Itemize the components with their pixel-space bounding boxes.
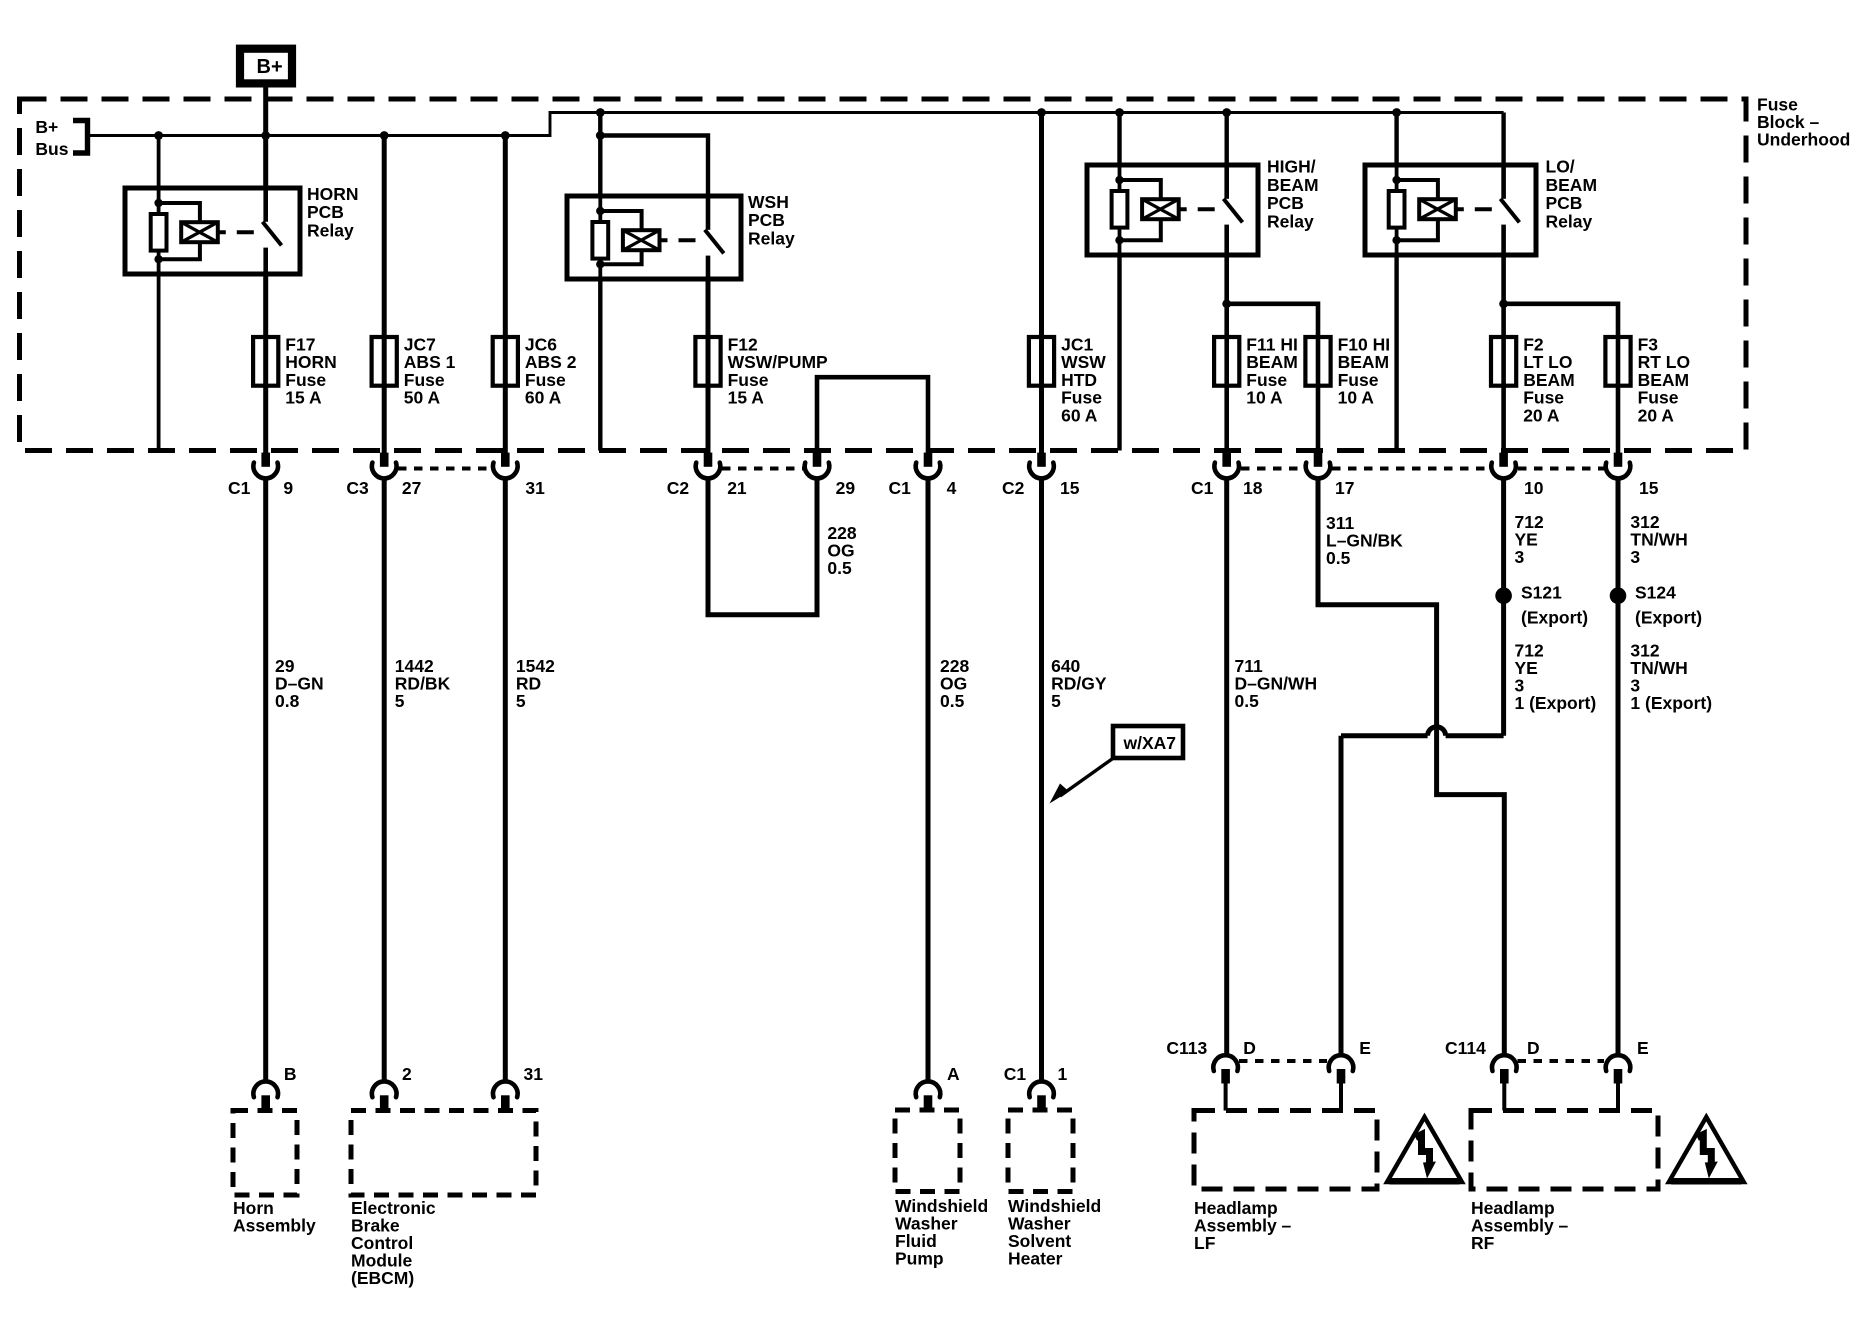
wire HIGH BEAM relay coil ground return (1117, 255, 1121, 451)
wire 312 TN/WH 3 pin 15 through S124 to headlamp RF E (1616, 477, 1621, 1057)
svg-text:Assembly: Assembly (233, 1216, 316, 1236)
node bus-B+ feed (261, 131, 270, 140)
svg-text:PCB: PCB (748, 210, 785, 230)
fuse JC1 WSW HTD 60A (1029, 337, 1054, 386)
node bus-WSH coil (596, 108, 605, 117)
connector C114 pin D (1492, 1055, 1517, 1110)
svg-text:Pump: Pump (895, 1249, 944, 1269)
wire bus to JC1 fuse to C2 pin 15 (1039, 113, 1044, 454)
node LO BEAM switch output tee (1499, 299, 1508, 308)
svg-text:C1: C1 (1191, 478, 1214, 498)
svg-text:29: 29 (836, 478, 856, 498)
connector C1 pin 18 (1214, 453, 1239, 479)
svg-text:4: 4 (947, 478, 957, 498)
wire HORN relay coil ground return (157, 274, 161, 451)
connector pin 29 (805, 453, 830, 479)
connector bridge C1 18-17 (1241, 467, 1304, 471)
wire 640 RD/GY 5 to washer solvent heater (1039, 477, 1044, 1083)
fuse F17 HORN 15A (253, 337, 278, 386)
svg-text:18: 18 (1243, 478, 1263, 498)
svg-text:S121: S121 (1521, 583, 1562, 603)
wire bus to JC7 fuse to C3 pin 27 (382, 136, 387, 454)
svg-text:B: B (284, 1064, 297, 1084)
wire 711 D-GN/WH 0.5 to headlamp LF D (1224, 477, 1229, 1057)
connector C2 pin 21 (696, 453, 721, 479)
svg-text:C1: C1 (1004, 1064, 1027, 1084)
svg-text:B+: B+ (35, 117, 58, 137)
node WSH switch-feed tee (596, 131, 605, 140)
svg-text:0.8: 0.8 (275, 691, 300, 711)
svg-text:20 A: 20 A (1638, 405, 1675, 425)
svg-text:LO/: LO/ (1546, 157, 1575, 177)
svg-text:WSH: WSH (748, 192, 789, 212)
svg-text:C3: C3 (346, 478, 369, 498)
svg-text:BEAM: BEAM (1267, 175, 1319, 195)
connector washer pump pin A (916, 1081, 941, 1110)
svg-text:C2: C2 (667, 478, 690, 498)
connector bridge C3 27-31 (398, 467, 492, 471)
svg-text:C2: C2 (1002, 478, 1025, 498)
wire C2 21 loop to pin 29 (708, 477, 817, 615)
svg-text:3: 3 (1515, 547, 1525, 567)
connector C114 pin E (1606, 1055, 1631, 1110)
wire 712 YE 3 pin 10 through S121 to headlamp LF E (1501, 477, 1506, 736)
connector pin 17 (1306, 453, 1331, 479)
svg-text:15 A: 15 A (285, 388, 322, 408)
relay HORN PCB Relay (125, 188, 300, 274)
node bus-JC6 (501, 131, 510, 140)
svg-text:5: 5 (395, 691, 405, 711)
node bus-LO coil (1392, 108, 1401, 117)
svg-text:D: D (1243, 1038, 1256, 1058)
svg-text:C113: C113 (1166, 1038, 1207, 1058)
wire 228 OG 0.5 C1 4 to washer pump (926, 477, 931, 1083)
component Horn Assembly (233, 1111, 297, 1196)
node bus-JC7 (380, 131, 389, 140)
svg-text:E: E (1637, 1038, 1649, 1058)
wire bus to JC6 fuse to pin 31 (503, 136, 508, 454)
wire branch to F3 fuse to pin 15 (1504, 304, 1618, 453)
fuse F3 RT LO BEAM 20A (1605, 337, 1630, 386)
wire 29 D-GN 0.8 to horn (263, 477, 268, 1083)
svg-text:Relay: Relay (307, 220, 354, 240)
component Headlamp Assembly LF (1194, 1111, 1377, 1190)
svg-text:PCB: PCB (1267, 193, 1304, 213)
svg-text:21: 21 (727, 478, 747, 498)
wire WSH relay switch to F12 fuse to C2 pin 21 (706, 279, 711, 453)
wire bus tee to WSH relay switch (600, 136, 708, 197)
svg-text:w/XA7: w/XA7 (1123, 733, 1177, 753)
svg-text:LF: LF (1194, 1233, 1216, 1253)
svg-text:10 A: 10 A (1338, 388, 1375, 408)
svg-text:A: A (947, 1064, 960, 1084)
wire WSH relay coil ground return (598, 279, 602, 451)
wire bus to HIGH BEAM relay switch (1224, 113, 1228, 166)
svg-text:Relay: Relay (1546, 212, 1593, 232)
warning triangle LF (1387, 1117, 1462, 1182)
wire HORN relay switch to F17 fuse to C1 pin 9 (263, 274, 268, 453)
fuse JC7 ABS1 50A (372, 337, 397, 386)
callout arrow to 640 wire (1060, 758, 1114, 796)
svg-text:0.5: 0.5 (1326, 548, 1351, 568)
svg-text:60 A: 60 A (1061, 405, 1098, 425)
svg-text:(Export): (Export) (1521, 607, 1588, 627)
connector C113 pin E (1329, 1055, 1354, 1110)
fuse JC6 ABS2 60A (493, 337, 518, 386)
svg-text:5: 5 (516, 691, 526, 711)
wire bus end to LO BEAM relay switch (1501, 113, 1505, 166)
svg-text:S124: S124 (1635, 583, 1676, 603)
connector bridge C1 10-15 (1518, 467, 1604, 471)
component Electronic Brake Control Module (EBCM) (351, 1111, 536, 1196)
svg-text:Relay: Relay (1267, 212, 1314, 232)
svg-text:15: 15 (1639, 478, 1659, 498)
fuse F12 WSW/PUMP 15A (695, 337, 720, 386)
svg-text:1 (Export): 1 (Export) (1630, 693, 1712, 713)
svg-text:3: 3 (1630, 547, 1640, 567)
svg-text:RF: RF (1471, 1233, 1495, 1253)
relay HIGH BEAM PCB Relay (1087, 165, 1258, 255)
node bus-HIGH coil (1115, 108, 1124, 117)
svg-text:HIGH/: HIGH/ (1267, 157, 1316, 177)
callout w/XA7 box (1113, 726, 1183, 758)
svg-text:C1: C1 (889, 478, 912, 498)
svg-text:(Export): (Export) (1635, 607, 1702, 627)
svg-text:C1: C1 (228, 478, 251, 498)
svg-text:31: 31 (525, 478, 545, 498)
connector horn assembly pin B (253, 1081, 278, 1110)
connector C3 pin 27 (372, 453, 397, 479)
connector pin 31 (493, 453, 518, 479)
svg-text:20 A: 20 A (1523, 405, 1560, 425)
svg-text:B+: B+ (257, 56, 283, 78)
svg-text:PCB: PCB (1546, 193, 1583, 213)
svg-text:60 A: 60 A (525, 388, 562, 408)
connector C1 pin 4 (916, 453, 941, 479)
svg-text:0.5: 0.5 (1235, 691, 1260, 711)
wire B+ terminal to HORN relay switch (263, 83, 268, 188)
svg-text:HORN: HORN (307, 184, 359, 204)
connector pin 10 (1491, 453, 1516, 479)
svg-text:15: 15 (1060, 478, 1080, 498)
wire pin 29 up-over to C1 pin 4 inside fuse block (817, 377, 928, 453)
svg-text:5: 5 (1051, 691, 1061, 711)
fuse block underhood dashed border (20, 99, 1747, 451)
B+ power terminal box (240, 49, 292, 84)
B+ Bus bracket (73, 121, 88, 154)
svg-text:0.5: 0.5 (827, 558, 852, 578)
wire bus to LO BEAM relay coil (1394, 113, 1398, 166)
wire hop over 311 wire (1428, 727, 1446, 736)
node bus-HIGH switch (1222, 108, 1231, 117)
svg-text:31: 31 (524, 1064, 544, 1084)
component Windshield Washer Solvent Heater (1008, 1110, 1073, 1192)
svg-text:BEAM: BEAM (1546, 175, 1598, 195)
svg-text:1 (Export): 1 (Export) (1515, 693, 1597, 713)
wire bus to WSH relay coil (598, 113, 602, 197)
connector washer heater C1 pin 1 (1029, 1081, 1054, 1110)
wire bus to HIGH BEAM relay coil (1117, 113, 1121, 166)
svg-text:10: 10 (1524, 478, 1544, 498)
svg-text:Relay: Relay (748, 228, 795, 248)
connector C1 pin 9 (253, 453, 278, 479)
connector bridge C2 21-29 (722, 467, 803, 471)
wire B+ bus (lower run, step, upper run) (90, 113, 1504, 136)
wire LO BEAM relay switch to F2 fuse to pin 10 (1501, 255, 1506, 453)
svg-text:27: 27 (402, 478, 421, 498)
svg-text:Heater: Heater (1008, 1249, 1063, 1269)
node bus-JC1 (1037, 108, 1046, 117)
svg-text:50 A: 50 A (404, 388, 441, 408)
warning triangle RF (1669, 1117, 1744, 1182)
wire 311 L-GN/BK 0.5 pin 17 jog to headlamp RF D (1318, 477, 1504, 1057)
component Windshield Washer Fluid Pump (895, 1110, 960, 1192)
wire HIGH BEAM relay switch to F11 fuse to C1 pin 18 (1224, 255, 1229, 453)
fuse F11 HI BEAM 10A (1214, 337, 1239, 386)
svg-text:Bus: Bus (35, 139, 68, 159)
splice S124 (1610, 587, 1627, 604)
fuse F10 HI BEAM 10A (1305, 337, 1330, 386)
svg-text:PCB: PCB (307, 202, 344, 222)
svg-text:D: D (1527, 1038, 1540, 1058)
svg-text:(EBCM): (EBCM) (351, 1268, 414, 1288)
svg-text:15 A: 15 A (728, 388, 765, 408)
connector bridge C114 D-E (1518, 1059, 1605, 1063)
connector bridge C1 17-10 (1332, 467, 1489, 471)
svg-text:Underhood: Underhood (1757, 130, 1850, 150)
svg-text:E: E (1359, 1038, 1371, 1058)
node HIGH BEAM switch output tee (1222, 299, 1231, 308)
connector bridge C113 D-E (1239, 1059, 1327, 1063)
relay WSH PCB Relay (567, 196, 741, 279)
splice S121 (1495, 587, 1512, 604)
wire 1542 RD 5 to EBCM 31 (503, 477, 508, 1083)
component Headlamp Assembly RF (1471, 1111, 1658, 1190)
connector C2 pin 15 (1029, 453, 1054, 479)
connector EBCM pin 31 (493, 1081, 518, 1110)
node bus-HORN coil (154, 131, 163, 140)
wire branch to F10 fuse to pin 17 (1227, 304, 1318, 453)
connector C113 pin D (1213, 1055, 1238, 1110)
svg-text:10 A: 10 A (1246, 388, 1283, 408)
wire 1442 RD/BK 5 to EBCM 2 (382, 477, 387, 1083)
svg-text:17: 17 (1335, 478, 1354, 498)
connector pin 15 (1606, 453, 1631, 479)
svg-text:2: 2 (402, 1064, 412, 1084)
wire bus to HORN relay coil (157, 136, 161, 189)
svg-text:0.5: 0.5 (940, 691, 965, 711)
fuse F2 LT LO BEAM 20A (1491, 337, 1516, 386)
relay LO BEAM PCB Relay (1365, 165, 1536, 255)
svg-text:C114: C114 (1445, 1038, 1486, 1058)
wire LO BEAM relay coil ground return (1394, 255, 1398, 451)
svg-text:1: 1 (1058, 1064, 1068, 1084)
connector EBCM pin 2 (372, 1081, 397, 1110)
svg-text:9: 9 (283, 478, 293, 498)
